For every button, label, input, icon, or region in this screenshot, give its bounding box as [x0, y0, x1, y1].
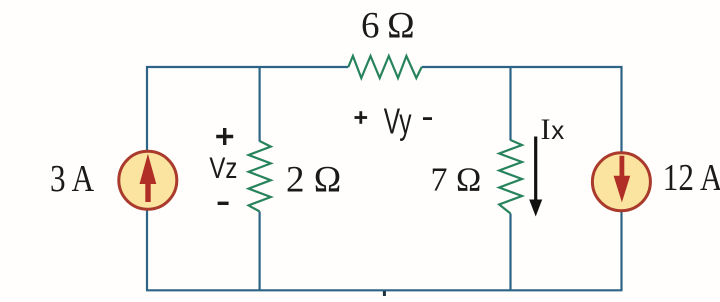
svg-text:Vz: Vz [209, 151, 237, 185]
svg-text:x: x [551, 115, 564, 145]
svg-text:7 Ω: 7 Ω [431, 162, 482, 199]
svg-text:6 Ω: 6 Ω [361, 6, 414, 47]
svg-text:2 Ω: 2 Ω [286, 159, 341, 200]
svg-text:Vy: Vy [384, 101, 412, 142]
svg-text:12 A: 12 A [663, 156, 720, 199]
svg-text:3 A: 3 A [50, 157, 94, 200]
svg-text:I: I [541, 113, 551, 146]
